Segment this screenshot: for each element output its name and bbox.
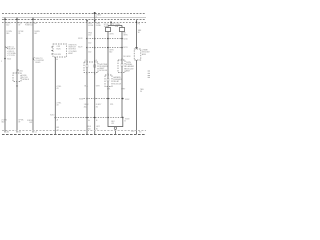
wire W4 xyxy=(54,57,56,134)
svg-text:ASM: ASM xyxy=(68,52,72,55)
splice dot W8 y98 xyxy=(107,98,109,100)
svg-text:« TCC FU: « TCC FU xyxy=(7,55,16,57)
splice dot W9 y117 xyxy=(122,117,124,119)
svg-text:IGN SW: IGN SW xyxy=(54,54,61,56)
connector text W3 xyxy=(35,58,44,64)
turn signal box B4 on W9 xyxy=(118,60,125,73)
splice bus dashed line y98 xyxy=(84,98,123,100)
wire W2 xyxy=(16,18,18,133)
B5 text xyxy=(113,76,122,85)
splice bus dashed line y47 xyxy=(87,47,122,49)
B4 inner terminal xyxy=(121,64,123,66)
off page marks right edge xyxy=(148,71,150,77)
svg-text:FUSE: FUSE xyxy=(96,25,102,27)
wire W8 xyxy=(107,32,109,119)
splice dot W6 y117 xyxy=(94,117,96,119)
buzzer box B6 on W10 xyxy=(134,49,141,60)
pin tick W6 at strip xyxy=(94,20,96,22)
junction dot W7 xyxy=(110,21,112,23)
splice dot W8 y47 xyxy=(107,47,109,49)
wire W10 xyxy=(136,20,138,49)
pin tick W1 at strip xyxy=(4,18,6,20)
drop to fuse F2 xyxy=(121,25,123,27)
splice bus dashed line y38 xyxy=(87,38,122,40)
junction dot on W2 xyxy=(16,85,17,86)
junction dot W6 top xyxy=(94,12,96,14)
B6 text xyxy=(142,50,151,56)
B3 pin stub left bottom xyxy=(86,73,88,75)
svg-text:DK GRN: DK GRN xyxy=(123,56,131,58)
fuse block lower dashed line xyxy=(2,19,146,21)
splice dot W8 y38 xyxy=(107,38,109,40)
B3 text xyxy=(99,63,108,72)
junction dot W10 xyxy=(136,21,138,23)
svg-text:ASM: ASM xyxy=(126,69,130,72)
splice dot on W4 xyxy=(55,117,57,119)
B6 pin stub top tick xyxy=(135,47,138,49)
svg-text:ASM: ASM xyxy=(142,53,146,56)
connector bracket on W3 xyxy=(33,58,35,61)
splice dot W9 y98 xyxy=(122,98,124,100)
svg-text:FEED: FEED xyxy=(35,62,41,64)
T-bar to fuses xyxy=(108,24,122,26)
svg-text:MODULE: MODULE xyxy=(99,70,108,72)
wire W1 xyxy=(4,18,6,133)
wire W9 xyxy=(121,32,123,119)
merge stub xyxy=(114,130,116,135)
instrument cluster box B3 xyxy=(84,62,98,73)
B2 description text xyxy=(68,45,77,55)
splice dot W5 y47 xyxy=(86,47,88,49)
relay box B5 on W8 xyxy=(105,75,112,87)
wire W6 xyxy=(94,13,96,134)
svg-text:FUSE 10: FUSE 10 xyxy=(25,25,33,27)
B3 pin stub left top xyxy=(86,60,88,62)
svg-text:FUSE: FUSE xyxy=(88,25,94,27)
splice dot W5 y98 xyxy=(86,98,88,100)
top module boundary dashed line xyxy=(2,13,146,15)
wire W3 xyxy=(32,18,34,133)
feed wire W7 from strip xyxy=(110,22,112,25)
B2 internal text xyxy=(54,46,61,56)
splice dot W8 y117 xyxy=(107,117,109,119)
svg-text:ORN: ORN xyxy=(109,34,114,36)
B5 inner terminal xyxy=(107,79,109,81)
destination list at W1 xyxy=(7,46,16,57)
B1 text xyxy=(22,75,30,81)
splice dot W9 y47 xyxy=(121,47,123,49)
B5 pin stub top xyxy=(107,73,109,75)
svg-text:DETAILS: DETAILS xyxy=(22,78,30,81)
B1 pin stub top xyxy=(16,72,18,74)
bottom module light dashed line xyxy=(2,130,146,132)
B4 pin stub top xyxy=(121,58,123,60)
pin tick W2 at strip xyxy=(16,18,18,20)
connector strip dashed line xyxy=(2,22,146,24)
wire W5 xyxy=(86,20,88,134)
bottom module dark dashed line xyxy=(2,134,146,136)
drop to fuse F1 xyxy=(107,25,109,27)
B4 text xyxy=(126,62,135,72)
B3 inner terminal W6 xyxy=(94,65,96,67)
merge connector circle xyxy=(114,127,116,129)
svg-text:MODULE: MODULE xyxy=(113,83,122,85)
merge bar wires xyxy=(108,117,123,127)
fuse F2 xyxy=(119,28,124,32)
B3 inner terminal W5 xyxy=(86,65,88,67)
splice dot W5 y117 xyxy=(86,117,88,119)
B2 left pin stubs xyxy=(51,46,53,48)
splice dot W6 y47 xyxy=(94,47,96,49)
B1 pin stub bottom xyxy=(16,82,18,85)
svg-text:GRN: GRN xyxy=(123,35,128,37)
splice dot W5 y38 xyxy=(86,38,88,40)
inline connector box B1 on W2 xyxy=(13,73,21,82)
B3 pin stub right top xyxy=(94,60,96,62)
pin tick W3 at strip xyxy=(32,18,34,20)
bus label row (light text strip) xyxy=(2,17,146,19)
splice bus dashed line y117 xyxy=(55,117,123,119)
splice dot W6 y38 xyxy=(94,38,96,40)
splice dot W6 y98 xyxy=(94,98,96,100)
switch assembly box B2 xyxy=(53,44,67,57)
B3 pin stub right bottom xyxy=(94,73,96,75)
splice dot S1 on W1 xyxy=(4,58,6,60)
wire W10 lower xyxy=(136,60,138,134)
branch arrow W1 xyxy=(5,47,8,49)
fuse F1 xyxy=(105,28,110,32)
splice dot W9 y38 xyxy=(121,38,123,40)
connector tick C200 on W2 xyxy=(17,69,19,71)
pin tick W5 at strip xyxy=(86,20,88,22)
svg-text:RUN: RUN xyxy=(56,48,61,50)
